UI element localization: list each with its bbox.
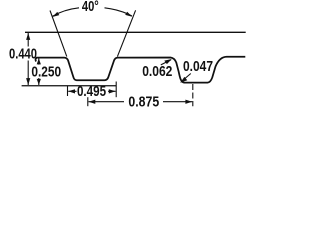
- 40 deg right extension line: [117, 10, 135, 56]
- 40 deg dimension arc right segment: [105, 8, 133, 16]
- dimension 0.875 right extension line (dashed): [192, 84, 194, 106]
- dimension 0.495 right arrow: [108, 90, 116, 92]
- svg-text:0.440: 0.440: [9, 45, 37, 62]
- dimension 0.440 lower line segment: [27, 61, 29, 86]
- radius 0.062 leader line with arrowhead: [161, 60, 171, 65]
- belt top surface line: [25, 31, 246, 33]
- dimension 0.440 upper line segment: [27, 33, 29, 47]
- 40 deg arc right arrowhead: [125, 12, 132, 17]
- svg-text:0.875: 0.875: [128, 94, 159, 110]
- bottom reference line: [22, 85, 117, 87]
- dimension 0.875 left extension line: [87, 97, 89, 106]
- svg-text:0.250: 0.250: [31, 63, 61, 79]
- belt tooth profile: [36, 57, 246, 83]
- svg-text:0.062: 0.062: [142, 63, 172, 79]
- svg-text:40°: 40°: [82, 0, 99, 15]
- dimension 0.250 lower line segment with arrowhead: [38, 78, 40, 85]
- 40 deg dimension arc left segment: [53, 8, 79, 16]
- dimension 0.495 left extension line: [67, 86, 69, 96]
- svg-text:0.495: 0.495: [77, 83, 106, 100]
- radius 0.047 leader line with arrowhead: [182, 74, 191, 82]
- dimension 0.875 left arrow: [89, 101, 125, 103]
- dimension 0.495 left arrow: [68, 90, 76, 92]
- 40 deg arc left arrowhead: [52, 12, 59, 17]
- svg-text:0.047: 0.047: [183, 58, 213, 74]
- dimension 0.495 right extension line: [115, 82, 117, 98]
- dimension 0.875 right arrow: [163, 101, 192, 103]
- 40 deg left extension line: [50, 11, 67, 57]
- dimension 0.440 upper arrowhead: [26, 33, 30, 40]
- dimension 0.440 lower arrowhead: [26, 78, 30, 85]
- dimension 0.250 upper line segment with arrowhead: [38, 58, 40, 64]
